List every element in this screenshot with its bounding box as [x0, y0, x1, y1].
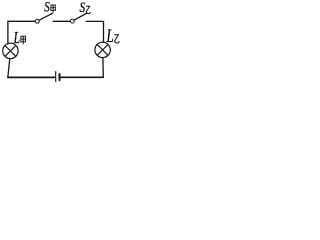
wire left rail upper [7, 21, 9, 43]
svg-text:S: S [44, 0, 50, 15]
wire top-right segment [86, 20, 103, 22]
label S1 subscript jia [51, 5, 55, 12]
label L2 subscript yi [114, 35, 119, 43]
battery positive plate (long) [55, 72, 57, 82]
switch S2 pivot circle [70, 19, 74, 23]
switch S1 lever [39, 13, 52, 20]
wire bottom-right segment [61, 76, 103, 78]
label L1 subscript jia [21, 36, 26, 44]
wire right rail upper [103, 21, 105, 42]
switch S1 pivot circle [35, 19, 39, 23]
svg-text:L: L [106, 27, 114, 47]
wire top-left segment [8, 20, 35, 22]
wire top-middle segment [53, 20, 70, 22]
svg-text:S: S [80, 0, 86, 15]
svg-text:L: L [13, 29, 20, 48]
battery negative plate (short thick) [59, 74, 61, 80]
label S2 subscript yi [86, 6, 91, 13]
wire right rail lower [102, 58, 104, 78]
switch S2 lever [74, 13, 86, 20]
lamp L2 [95, 42, 110, 57]
wire bottom-left segment [8, 76, 55, 78]
wire left rail lower [8, 58, 10, 77]
lamp L1 [3, 43, 18, 58]
